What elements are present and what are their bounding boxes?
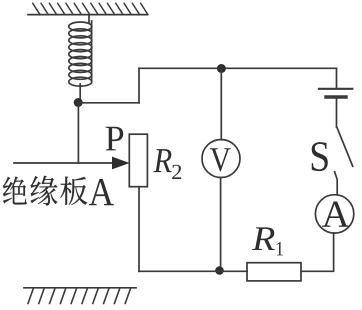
- slider rod from spring node: [77, 103, 79, 163]
- wire: top rail: [139, 67, 337, 69]
- label 绝缘板 (glyph outlines): [3, 176, 87, 206]
- label A (plate A): [89, 179, 114, 205]
- wire: R2 bottom leg: [138, 187, 140, 272]
- label R1: [252, 227, 275, 250]
- label S: [312, 142, 328, 171]
- node: bottom junction: [215, 266, 224, 275]
- voltmeter U1 circle: [202, 140, 240, 178]
- battery (cell): [319, 68, 352, 127]
- wire: bottom rail left: [139, 270, 247, 272]
- wire: riser up to top rail: [138, 68, 140, 103]
- rheostat R2 box: [129, 134, 147, 187]
- switch lower terminal: [335, 172, 338, 195]
- wire: junction to riser: [78, 102, 139, 104]
- switch S blade: [337, 128, 353, 167]
- slider arrowhead P: [112, 157, 130, 170]
- slider arrow line: [14, 162, 113, 164]
- spring: [69, 15, 92, 99]
- resistor R1 box: [247, 263, 301, 281]
- ammeter label A: [322, 201, 349, 226]
- label R2: [153, 149, 171, 172]
- wire: ammeter to bottom rail: [301, 233, 334, 271]
- wire: junction down to voltmeter: [220, 68, 222, 139]
- node: spring-wire junction: [74, 98, 83, 107]
- voltmeter label V: [210, 148, 231, 171]
- node: top junction: [217, 64, 226, 73]
- label P: [106, 127, 124, 151]
- ground (hatched): [24, 288, 136, 304]
- wire: voltmeter to bottom junction: [220, 178, 222, 272]
- ammeter circle: [315, 195, 353, 233]
- ceiling support (hatched): [28, 3, 148, 14]
